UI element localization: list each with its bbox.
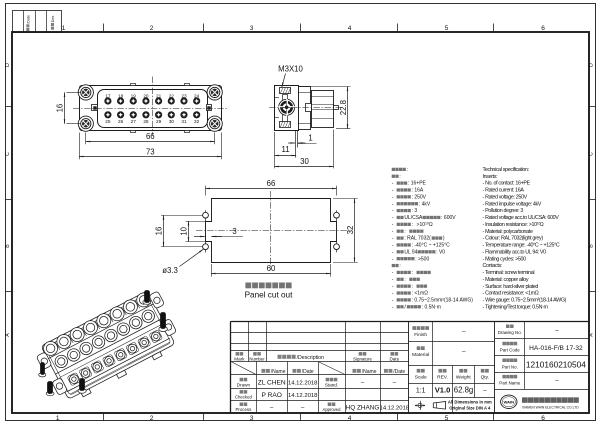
svg-text:: 0.5N·m: : 0.5N·m: [422, 304, 441, 310]
svg-text:30: 30: [300, 157, 309, 166]
svg-text:3: 3: [232, 227, 236, 236]
svg-text:Part Name: Part Name: [499, 381, 521, 386]
svg-text:-: -: [392, 291, 394, 297]
svg-text:29: 29: [156, 119, 162, 124]
svg-text:17: 17: [105, 93, 111, 98]
svg-text:Contacts:: Contacts:: [483, 263, 502, 269]
svg-text:M3X10: M3X10: [278, 65, 303, 74]
svg-text:66: 66: [146, 132, 155, 141]
svg-text:–: –: [361, 380, 365, 386]
svg-text:2: 2: [150, 25, 154, 32]
svg-text:-: -: [392, 249, 394, 255]
svg-text:-: -: [392, 222, 394, 228]
svg-text:: 600V: : 600V: [441, 215, 456, 221]
svg-text:/Date: /Date: [26, 15, 30, 24]
svg-text:16: 16: [56, 104, 65, 113]
svg-text:3: 3: [250, 415, 254, 422]
svg-text:Technical specification:: Technical specification:: [483, 167, 529, 173]
svg-text:B: B: [589, 244, 595, 248]
svg-text:73: 73: [146, 147, 155, 156]
svg-text:-: -: [392, 277, 394, 283]
svg-text:: <1mΩ: : <1mΩ: [412, 291, 429, 297]
svg-text:30: 30: [169, 119, 175, 124]
svg-text:20: 20: [143, 93, 149, 98]
svg-text:14.12.2018: 14.12.2018: [380, 406, 410, 412]
svg-text:Stand.: Stand.: [325, 382, 338, 387]
svg-text:60: 60: [267, 264, 276, 273]
svg-text:: 3: : 3: [412, 208, 418, 214]
svg-text:C: C: [5, 152, 11, 156]
svg-text:- Contact resistance: <1mΩ: - Contact resistance: <1mΩ: [483, 291, 539, 297]
svg-text:- Surface: hard-silver plated: - Surface: hard-silver plated: [483, 284, 539, 290]
svg-text:28: 28: [143, 119, 149, 124]
svg-text:23: 23: [181, 93, 187, 98]
svg-text:Drawn: Drawn: [237, 382, 251, 387]
svg-text:Process: Process: [235, 407, 252, 412]
svg-text:1: 1: [62, 25, 66, 32]
svg-text:–: –: [270, 405, 274, 411]
svg-text:- Colour: RAL 7032(light grey): - Colour: RAL 7032(light grey): [483, 236, 544, 242]
svg-text:A: A: [589, 333, 595, 337]
svg-text:–: –: [462, 349, 466, 356]
svg-text:-: -: [392, 284, 394, 290]
svg-text:-: -: [392, 208, 394, 214]
svg-text:32: 32: [346, 226, 355, 235]
svg-text:HQ ZHANG: HQ ZHANG: [346, 405, 380, 412]
svg-text:Panel cut out: Panel cut out: [245, 290, 294, 299]
svg-text:25: 25: [105, 119, 111, 124]
svg-text:- Tightening/Test torque: 0.5N: - Tightening/Test torque: 0.5N·m: [483, 304, 549, 310]
svg-text:: 16A: : 16A: [412, 188, 424, 194]
svg-text:WAIN: WAIN: [504, 400, 515, 405]
svg-text:21: 21: [156, 93, 162, 98]
svg-text:-: -: [392, 229, 394, 235]
svg-text:Weight: Weight: [456, 375, 472, 381]
svg-text:11: 11: [281, 145, 289, 154]
svg-text:-: -: [392, 215, 394, 221]
svg-text:5: 5: [445, 25, 449, 32]
svg-text::: :: [407, 167, 408, 173]
svg-text:-: -: [392, 256, 394, 262]
svg-text:Material: Material: [412, 352, 429, 358]
svg-text:1210160210504: 1210160210504: [526, 359, 586, 369]
svg-text:22.8: 22.8: [339, 100, 348, 115]
svg-text:14.12.2018: 14.12.2018: [288, 393, 318, 399]
svg-text:- Material: polycarbonate: - Material: polycarbonate: [483, 229, 533, 235]
svg-text:: 16+PE: : 16+PE: [408, 181, 427, 187]
svg-text:- Pollution degree: 3: - Pollution degree: 3: [483, 208, 524, 214]
svg-text:-: -: [392, 304, 394, 310]
svg-text:5: 5: [445, 415, 449, 422]
svg-text:ø3.3: ø3.3: [162, 266, 178, 275]
svg-text:Signature: Signature: [353, 356, 372, 361]
svg-text:All Dimensions in mm: All Dimensions in mm: [448, 400, 492, 405]
svg-text:-: -: [392, 181, 394, 187]
svg-text:1: 1: [56, 415, 60, 422]
svg-text:Approved: Approved: [323, 407, 342, 412]
svg-text:- Temperature range: -40°C ~ +: - Temperature range: -40°C ~ +125°C: [483, 243, 560, 249]
svg-text:Inserts:: Inserts:: [483, 174, 498, 180]
svg-text:1: 1: [308, 134, 312, 143]
svg-text:31: 31: [181, 119, 187, 124]
svg-text:/Date: /Date: [302, 369, 314, 375]
svg-text:Finish: Finish: [414, 332, 427, 338]
svg-text:Mark: Mark: [234, 356, 245, 361]
svg-text:): ): [443, 236, 445, 242]
svg-text:- No. of contact: 16+PE: - No. of contact: 16+PE: [483, 181, 531, 187]
svg-text:-: -: [392, 298, 394, 304]
svg-text::: :: [399, 263, 400, 269]
svg-text:Part No.: Part No.: [502, 364, 518, 369]
svg-text:-: -: [392, 236, 394, 242]
svg-text:–: –: [462, 328, 466, 335]
svg-text:: RAL 7032(: : RAL 7032(: [404, 236, 431, 242]
svg-text:- Rated voltage: 250V: - Rated voltage: 250V: [483, 194, 528, 200]
svg-text:/Name: /Name: [271, 369, 286, 375]
svg-text:UL 94: UL 94: [404, 249, 417, 255]
svg-text:-: -: [392, 270, 394, 276]
svg-text:6: 6: [541, 25, 545, 32]
svg-text:Date: Date: [389, 356, 399, 361]
svg-text:REV.: REV.: [437, 375, 448, 381]
svg-text:62.8g: 62.8g: [454, 386, 474, 395]
svg-text:/Name: /Name: [362, 369, 377, 375]
svg-text:4: 4: [348, 415, 352, 422]
svg-text:–: –: [301, 405, 305, 411]
svg-text:XIAMEN WAIN ELECTRICAL CO.LTD: XIAMEN WAIN ELECTRICAL CO.LTD: [522, 405, 579, 409]
svg-text::: :: [399, 174, 400, 180]
svg-text:- Wire gauge: 0.75~2.5mm²(18-1: - Wire gauge: 0.75~2.5mm²(18-14 AWG): [483, 298, 567, 304]
svg-text:1:1: 1:1: [416, 387, 426, 394]
svg-text:–: –: [393, 380, 397, 386]
svg-text:–: –: [555, 378, 559, 385]
svg-text:- Terminal: screw terminal: - Terminal: screw terminal: [483, 270, 535, 276]
svg-text:22: 22: [169, 93, 175, 98]
svg-text:>1010Ω: >1010Ω: [417, 221, 433, 228]
svg-text:A: A: [5, 333, 11, 337]
svg-text:Scale: Scale: [415, 375, 427, 381]
svg-text::: :: [412, 270, 413, 276]
svg-text:-: -: [392, 194, 394, 200]
svg-text:-: -: [392, 243, 394, 249]
svg-text:C: C: [589, 152, 595, 156]
svg-text:Drawing No.: Drawing No.: [498, 330, 522, 335]
svg-text:: 0.75~2.5mm²(18-14 AWG): : 0.75~2.5mm²(18-14 AWG): [412, 298, 474, 304]
svg-text:24: 24: [194, 93, 200, 98]
svg-text:66: 66: [267, 179, 276, 188]
svg-text:B: B: [5, 244, 11, 248]
svg-text:/Description: /Description: [297, 355, 325, 361]
svg-text:26: 26: [118, 119, 124, 124]
svg-text:P RAO: P RAO: [261, 392, 281, 399]
svg-text:HA-016-F/B 17-32: HA-016-F/B 17-32: [529, 345, 583, 352]
svg-text:18: 18: [118, 93, 124, 98]
svg-text:/Date: /Date: [393, 369, 405, 375]
svg-text:UL/CSA: UL/CSA: [404, 215, 423, 221]
svg-text::: :: [412, 284, 413, 290]
svg-text::: :: [404, 229, 405, 235]
svg-text:: 4kV: : 4kV: [419, 201, 431, 207]
svg-text:-: -: [392, 188, 394, 194]
svg-text:- Mating cycles: >500: - Mating cycles: >500: [483, 256, 527, 262]
svg-text:: -40°C ~ +125°C: : -40°C ~ +125°C: [412, 243, 451, 249]
svg-text:- Flammability acc.to UL 94: V: - Flammability acc.to UL 94: V0: [483, 249, 547, 255]
svg-text:/: /: [404, 304, 406, 310]
svg-text:: >500: : >500: [415, 256, 429, 262]
svg-text:6: 6: [541, 415, 545, 422]
svg-text::: :: [412, 222, 413, 228]
svg-text:- Rated current: 16A: - Rated current: 16A: [483, 188, 525, 194]
svg-text:19: 19: [131, 93, 137, 98]
svg-text:- Insulation resistance: >1010: - Insulation resistance: >1010Ω: [483, 221, 544, 228]
svg-text:: 250V: : 250V: [412, 194, 427, 200]
svg-text:27: 27: [131, 119, 137, 124]
svg-text:D: D: [589, 63, 595, 67]
svg-text:4: 4: [348, 25, 352, 32]
svg-text:Checked: Checked: [235, 395, 253, 400]
svg-text:Part Code: Part Code: [500, 348, 520, 353]
svg-text:16: 16: [155, 227, 164, 236]
svg-text:–: –: [483, 387, 487, 394]
svg-text:Number: Number: [249, 356, 265, 361]
svg-text:Des: Des: [51, 15, 55, 22]
svg-text:: V0: : V0: [436, 249, 445, 255]
svg-text:3: 3: [250, 25, 254, 32]
svg-text:ZL CHEN: ZL CHEN: [258, 380, 286, 387]
svg-text::: :: [404, 277, 405, 283]
svg-text:- Rated voltage acc.to UL/CSA:: - Rated voltage acc.to UL/CSA: 600V: [483, 215, 560, 221]
svg-text:10: 10: [179, 226, 188, 235]
svg-text:D: D: [5, 63, 11, 67]
svg-text:- Material: copper alloy: - Material: copper alloy: [483, 277, 529, 283]
svg-text:14.12.2018: 14.12.2018: [288, 381, 318, 387]
svg-text:Original Size DIN A 4: Original Size DIN A 4: [449, 405, 491, 410]
svg-text:V1.0: V1.0: [435, 386, 451, 395]
svg-text:Qty.: Qty.: [481, 375, 489, 381]
svg-text:32: 32: [194, 119, 200, 124]
svg-text:2: 2: [150, 415, 154, 422]
svg-text:- Rated impulse voltage: 4kV: - Rated impulse voltage: 4kV: [483, 201, 542, 207]
svg-text:-: -: [392, 201, 394, 207]
svg-text:–: –: [555, 327, 559, 334]
